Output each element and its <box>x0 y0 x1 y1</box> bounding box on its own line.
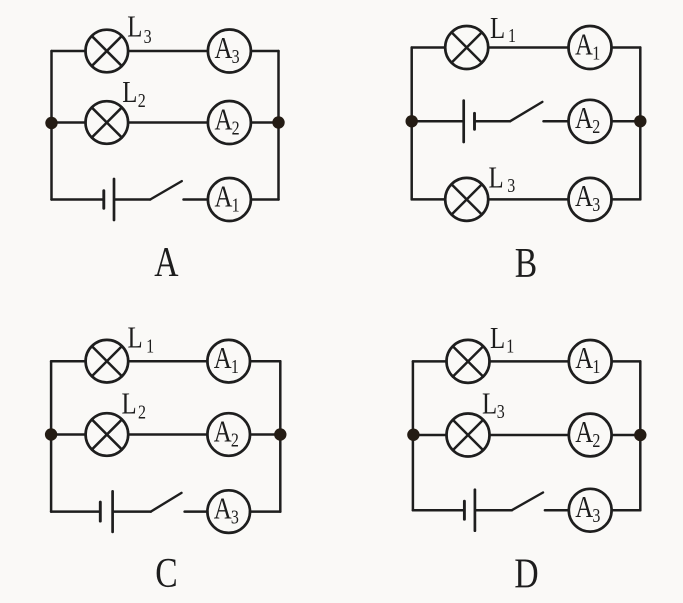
svg-text:2: 2 <box>232 117 240 139</box>
svg-text:3: 3 <box>232 45 240 67</box>
svg-text:A: A <box>214 415 233 449</box>
svg-text:A: A <box>575 28 594 62</box>
svg-text:1: 1 <box>146 335 154 357</box>
svg-text:C: C <box>155 551 177 597</box>
svg-text:1: 1 <box>231 355 239 377</box>
svg-text:2: 2 <box>592 115 600 137</box>
svg-text:2: 2 <box>231 429 239 451</box>
svg-text:A: A <box>214 103 233 137</box>
svg-text:L: L <box>122 387 137 421</box>
svg-text:1: 1 <box>232 194 240 216</box>
svg-text:L: L <box>122 76 137 110</box>
svg-text:A: A <box>214 341 233 375</box>
svg-text:A: A <box>575 415 594 449</box>
svg-text:1: 1 <box>592 42 600 64</box>
svg-text:3: 3 <box>497 401 505 423</box>
svg-text:A: A <box>214 492 233 526</box>
svg-text:A: A <box>214 31 233 65</box>
svg-text:3: 3 <box>144 25 152 47</box>
svg-text:A: A <box>575 490 594 524</box>
svg-text:3: 3 <box>507 174 515 196</box>
svg-text:L: L <box>482 387 497 421</box>
svg-text:L: L <box>490 11 505 45</box>
svg-text:B: B <box>515 241 537 287</box>
svg-text:A: A <box>214 180 233 214</box>
svg-text:1: 1 <box>506 335 514 357</box>
svg-text:1: 1 <box>508 25 516 47</box>
svg-text:A: A <box>575 102 594 136</box>
svg-text:2: 2 <box>138 401 146 423</box>
svg-text:2: 2 <box>138 89 146 111</box>
svg-text:L: L <box>490 321 505 355</box>
svg-text:L: L <box>489 161 504 195</box>
svg-text:2: 2 <box>592 429 600 451</box>
svg-text:A: A <box>575 342 594 376</box>
svg-text:L: L <box>128 321 143 355</box>
svg-text:A: A <box>154 240 179 286</box>
svg-text:3: 3 <box>592 504 600 526</box>
svg-text:3: 3 <box>231 506 239 528</box>
svg-text:1: 1 <box>592 356 600 378</box>
svg-text:A: A <box>575 180 594 214</box>
svg-text:L: L <box>127 10 142 44</box>
svg-text:3: 3 <box>592 194 600 216</box>
svg-text:D: D <box>514 551 538 597</box>
